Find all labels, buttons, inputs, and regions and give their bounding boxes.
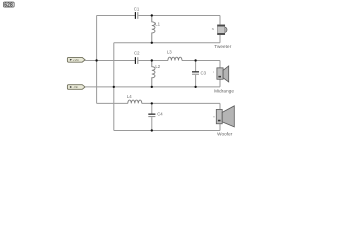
node C3 bottom — [194, 86, 196, 88]
svg-text:Woofer: Woofer — [217, 132, 233, 137]
svg-text:+Vin: +Vin — [73, 58, 80, 62]
svg-text:r: r — [213, 70, 214, 74]
svg-text:C3: C3 — [201, 71, 207, 76]
wire woofer drop bottom — [219, 124, 221, 131]
svg-text:628: 628 — [4, 3, 13, 9]
wire top rail left of C1 — [97, 14, 135, 16]
wire tweeter return rail — [114, 42, 220, 44]
node -Vin junction — [113, 86, 115, 88]
wire mid rail C2 to L3 — [138, 59, 168, 61]
node +Vin junction — [95, 59, 97, 61]
capacitor C3 — [192, 60, 207, 86]
node L1 top — [151, 14, 153, 16]
svg-text:-Vin: -Vin — [73, 85, 79, 89]
midrange speaker — [213, 66, 229, 82]
svg-text:C2: C2 — [134, 51, 140, 56]
wire woofer drop top — [219, 103, 221, 109]
inductor L1 — [152, 15, 161, 42]
wire top rail right of C1 — [138, 14, 220, 16]
svg-text:Tweeter: Tweeter — [214, 44, 231, 49]
wire tweeter drop bottom — [219, 35, 221, 43]
wire tweeter drop top — [219, 15, 221, 25]
wire midrange drop bottom — [219, 79, 221, 87]
node C4 top — [151, 102, 153, 104]
node L2 top — [151, 59, 153, 61]
capacitor C2 — [134, 51, 140, 64]
svg-text:L2: L2 — [155, 64, 160, 69]
inductor L4 — [127, 94, 142, 103]
node L2 bottom — [151, 86, 153, 88]
node C4 bottom — [151, 129, 153, 131]
svg-text:C1: C1 — [134, 7, 140, 12]
wire +Vin stub to C2 — [85, 59, 135, 61]
wire -Vin return rail — [85, 86, 220, 88]
wire woofer feed rail right of L4 — [142, 102, 220, 104]
svg-text:Midrange: Midrange — [214, 88, 234, 93]
wire mid rail L3 to midrange — [182, 59, 220, 61]
wire woofer return rail — [114, 129, 220, 131]
svg-text:L3: L3 — [167, 49, 172, 54]
tweeter speaker — [212, 25, 227, 35]
port -Vin — [67, 85, 85, 90]
capacitor C1 — [134, 7, 140, 19]
inductor L2 — [152, 60, 161, 86]
inductor L3 — [167, 49, 182, 60]
wire -V vertical — [113, 43, 115, 131]
wire woofer feed rail — [97, 102, 128, 104]
badge 628 — [3, 2, 14, 9]
svg-text:L4: L4 — [127, 94, 132, 99]
svg-text:n: n — [213, 115, 215, 119]
woofer speaker — [213, 106, 234, 127]
wire +V vertical riser — [96, 15, 98, 103]
node L1 bottom — [151, 42, 153, 44]
svg-text:C4: C4 — [157, 112, 163, 117]
capacitor C4 — [148, 103, 163, 130]
wire midrange drop top — [219, 60, 221, 68]
svg-text:N: N — [212, 27, 214, 31]
svg-text:L1: L1 — [155, 22, 160, 27]
node C3 top — [194, 59, 196, 61]
port +Vin — [67, 57, 85, 62]
